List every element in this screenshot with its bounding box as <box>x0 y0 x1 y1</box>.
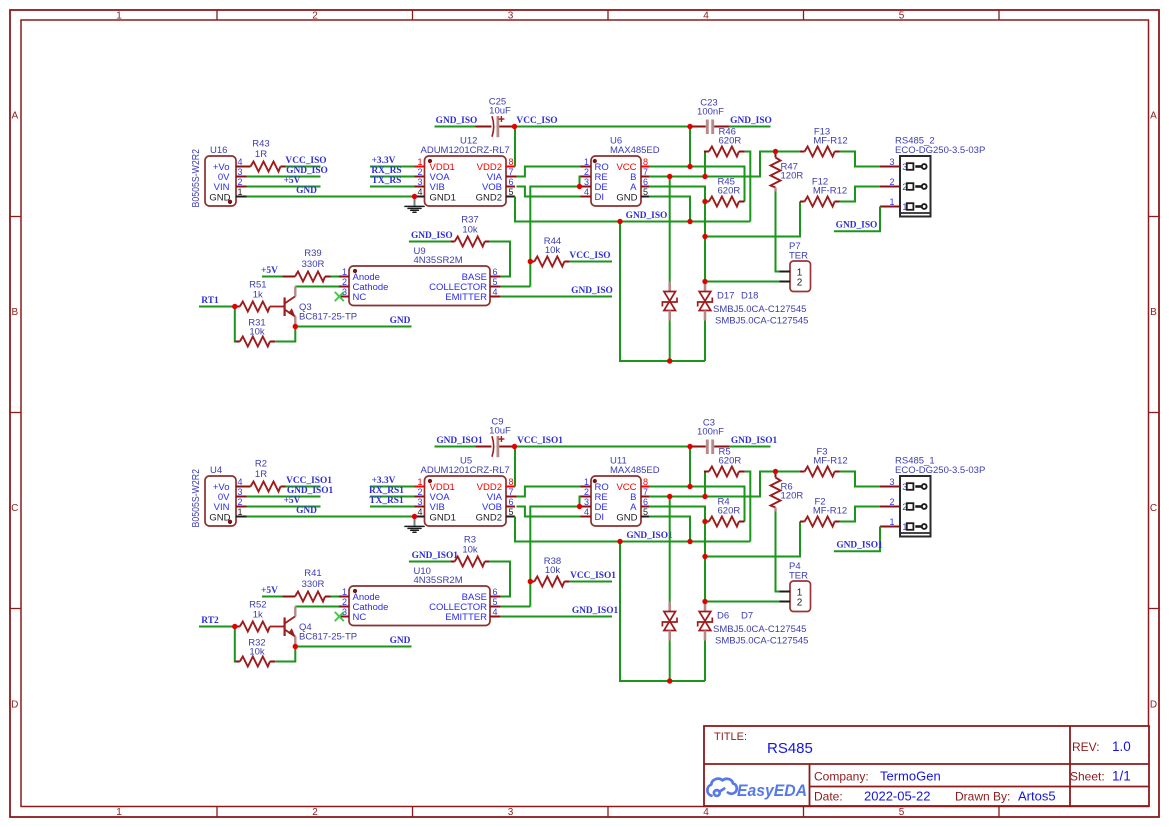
svg-text:3: 3 <box>584 177 589 187</box>
svg-text:MAX485ED: MAX485ED <box>610 465 660 476</box>
svg-text:5: 5 <box>493 597 498 607</box>
digital isolator U12 ADUM1201CRZ-RL7 <box>425 156 507 206</box>
svg-text:100nF: 100nF <box>697 107 724 118</box>
svg-text:GND: GND <box>390 316 411 326</box>
svg-text:EMITTER: EMITTER <box>445 612 487 623</box>
svg-text:2022-05-22: 2022-05-22 <box>864 789 931 804</box>
DC-DC converter U4 B0505S-W2R2 <box>205 476 236 526</box>
wire R38 to VCC_ISO1 <box>569 581 612 583</box>
svg-text:GND_ISO: GND_ISO <box>836 221 878 231</box>
wire RT1 node down to R31 <box>234 307 237 342</box>
svg-text:B0505S-W2R2: B0505S-W2R2 <box>191 469 202 528</box>
wire RT1 <box>199 306 235 308</box>
svg-text:+5V: +5V <box>261 586 278 596</box>
svg-text:1: 1 <box>417 477 422 487</box>
wire R31 to emitter node <box>275 647 295 662</box>
wire COLLECTOR to column <box>501 606 531 608</box>
svg-text:5: 5 <box>899 807 905 818</box>
svg-text:5: 5 <box>643 187 648 197</box>
svg-text:10uF: 10uF <box>489 426 511 437</box>
U5 left pin stubs <box>415 486 425 488</box>
svg-text:GND: GND <box>296 186 317 196</box>
svg-text:+3.3V: +3.3V <box>372 156 396 166</box>
svg-text:GND_ISO: GND_ISO <box>411 231 453 241</box>
junction A-F12 row <box>702 234 707 239</box>
digital isolator U5 ADUM1201CRZ-RL7 <box>425 476 507 526</box>
junction B-R46 <box>702 494 707 499</box>
svg-text:NC: NC <box>353 612 367 623</box>
wire RT2 <box>199 626 235 628</box>
svg-text:120R: 120R <box>781 171 804 182</box>
svg-text:D: D <box>11 700 18 711</box>
svg-text:5: 5 <box>509 187 514 197</box>
svg-text:1: 1 <box>342 587 347 597</box>
junction RE-DE <box>577 504 582 509</box>
svg-text:DI: DI <box>595 192 605 203</box>
DC-DC converter U16 B0505S-W2R2 <box>205 156 236 206</box>
svg-text:R41: R41 <box>304 568 321 579</box>
svg-text:GND2: GND2 <box>476 512 502 523</box>
svg-text:GND_ISO1: GND_ISO1 <box>626 531 673 541</box>
svg-text:GND: GND <box>209 512 230 523</box>
wire D6 to bottom rail <box>669 641 671 682</box>
svg-text:GND_ISO1: GND_ISO1 <box>731 436 778 446</box>
wire D7 to bottom rail <box>704 641 706 682</box>
wire GND_ISO1 pin3 <box>247 496 321 498</box>
svg-text:100nF: 100nF <box>697 427 724 438</box>
wire COLLECTOR to column <box>501 286 531 288</box>
wire EMITTER to GND_ISO1 <box>501 616 612 618</box>
U11 left pin stubs <box>581 486 592 488</box>
wire RT1 node down to R31 <box>234 627 237 662</box>
svg-text:5: 5 <box>509 507 514 517</box>
svg-text:1: 1 <box>342 267 347 277</box>
svg-text:2: 2 <box>312 807 318 818</box>
ground symbol <box>414 197 416 207</box>
wire GND2 down to rail <box>515 517 750 542</box>
svg-text:R39: R39 <box>304 248 321 259</box>
svg-text:MF-R12: MF-R12 <box>813 456 847 467</box>
U16 pin 4 stub <box>236 166 247 168</box>
svg-text:VCC_ISO: VCC_ISO <box>516 116 557 126</box>
svg-text:RX_RS1: RX_RS1 <box>369 486 404 496</box>
RS485_2 pin 2 <box>880 186 900 188</box>
svg-text:2: 2 <box>342 597 347 607</box>
svg-text:MAX485ED: MAX485ED <box>610 145 660 156</box>
svg-text:6: 6 <box>643 497 648 507</box>
wire +5V pin2 <box>247 506 321 508</box>
wire VCC to R45 <box>649 487 745 522</box>
svg-text:3: 3 <box>889 157 894 167</box>
svg-text:+5V: +5V <box>284 496 301 506</box>
U5 right pin stubs <box>506 486 515 488</box>
svg-text:Sheet:: Sheet: <box>1070 770 1105 784</box>
svg-text:GND_ISO: GND_ISO <box>626 211 668 221</box>
svg-text:C: C <box>11 503 18 514</box>
wire R3 to BASE <box>489 562 510 597</box>
U9 right pin stubs <box>490 276 501 278</box>
svg-text:REV:: REV: <box>1072 740 1100 754</box>
svg-text:4: 4 <box>417 187 422 197</box>
svg-text:1: 1 <box>584 477 589 487</box>
U10 right pin stubs <box>490 596 501 598</box>
U4 pin 4 stub <box>236 486 247 488</box>
svg-text:TX_RS: TX_RS <box>372 176 402 186</box>
wire VDD2 to rail vertical <box>514 447 516 487</box>
TVS diode D18 SMBJ5.0CA <box>704 282 707 292</box>
svg-text:D18: D18 <box>741 290 758 301</box>
svg-text:VCC_ISO1: VCC_ISO1 <box>286 476 332 486</box>
RS485_1 pin 2 <box>880 506 900 508</box>
svg-text:TX_RS1: TX_RS1 <box>369 496 404 506</box>
svg-text:GND: GND <box>390 636 411 646</box>
svg-text:10k: 10k <box>545 565 561 576</box>
wire B net <box>649 472 800 497</box>
svg-text:R2: R2 <box>255 459 267 470</box>
svg-text:D17: D17 <box>717 290 734 301</box>
svg-text:3: 3 <box>508 10 514 21</box>
svg-text:4: 4 <box>703 10 709 21</box>
wire VCC to R45 <box>649 167 745 202</box>
svg-text:GND: GND <box>616 512 637 523</box>
TVS diode D6 SMBJ5.0CA <box>668 602 671 612</box>
junction at ground symbol <box>412 194 417 199</box>
wire +3.3V <box>370 486 415 488</box>
svg-text:4: 4 <box>584 507 589 517</box>
junction rail-690 <box>687 539 692 544</box>
svg-text:1: 1 <box>889 197 894 207</box>
svg-text:3: 3 <box>238 487 243 497</box>
wire R47 to P7 pin1 <box>776 192 780 272</box>
U16 pin 1 stub <box>236 196 247 198</box>
svg-text:2: 2 <box>797 598 803 609</box>
svg-text:2: 2 <box>312 10 318 21</box>
wire F2 to connector pin2 <box>840 507 881 522</box>
junction A-P7pin2-D18 <box>702 599 707 604</box>
svg-text:6: 6 <box>509 177 514 187</box>
wire VDD2 to rail vertical <box>514 127 516 167</box>
svg-text:7: 7 <box>509 167 514 177</box>
svg-text:Company:: Company: <box>814 770 869 784</box>
wire VIA to RO <box>517 487 581 497</box>
svg-text:SMBJ5.0CA-C127545: SMBJ5.0CA-C127545 <box>715 635 808 646</box>
svg-text:GND2: GND2 <box>476 192 502 203</box>
svg-text:ECO-DG250-3.5-03P: ECO-DG250-3.5-03P <box>895 465 985 476</box>
svg-text:4: 4 <box>493 287 498 297</box>
svg-text:GND_ISO1: GND_ISO1 <box>572 606 619 616</box>
title block outline <box>704 726 1149 806</box>
wire emitter to GND <box>295 326 411 328</box>
U10 left pin stubs <box>339 596 349 598</box>
svg-text:1: 1 <box>116 807 122 818</box>
svg-text:5: 5 <box>899 10 905 21</box>
junction at ground symbol <box>412 514 417 519</box>
wire VCC_ISO drop to pin8 <box>689 447 691 487</box>
junction bottom rail <box>667 678 672 683</box>
svg-text:10k: 10k <box>462 545 478 556</box>
svg-text:8: 8 <box>643 157 648 167</box>
wire R31 to emitter node <box>275 327 295 342</box>
wire TX_RS <box>370 186 415 188</box>
wire R39 to Anode <box>331 596 340 598</box>
svg-text:1R: 1R <box>255 469 267 480</box>
svg-text:330R: 330R <box>302 579 325 590</box>
bottom gnd loop wire <box>620 222 705 362</box>
svg-text:U4: U4 <box>210 465 222 476</box>
svg-text:1.0: 1.0 <box>1112 739 1131 754</box>
junction VCC column <box>687 484 692 489</box>
svg-text:5: 5 <box>643 507 648 517</box>
svg-text:3: 3 <box>417 177 422 187</box>
svg-text:7: 7 <box>643 487 648 497</box>
svg-text:D7: D7 <box>741 610 753 621</box>
svg-text:1R: 1R <box>255 149 267 160</box>
wire VOB to DI <box>517 507 581 517</box>
junction RT1 node <box>232 304 237 309</box>
svg-text:B: B <box>1150 307 1157 318</box>
svg-text:SMBJ5.0CA-C127545: SMBJ5.0CA-C127545 <box>715 315 808 326</box>
svg-text:GND: GND <box>209 192 230 203</box>
svg-text:1/1: 1/1 <box>1112 769 1131 784</box>
junction emitter <box>293 644 298 649</box>
row ticks left <box>10 216 21 218</box>
wire A to F12 <box>705 202 800 237</box>
svg-text:ADUM1201CRZ-RL7: ADUM1201CRZ-RL7 <box>421 465 510 476</box>
svg-text:MF-R12: MF-R12 <box>813 506 847 517</box>
svg-text:RX_RS: RX_RS <box>371 166 401 176</box>
svg-text:3: 3 <box>238 167 243 177</box>
wire RX_RS <box>370 176 415 178</box>
wire D17 to bottom rail <box>669 321 671 362</box>
junction bottom rail <box>667 358 672 363</box>
U9 left pin stubs <box>339 276 349 278</box>
wire D18 to bottom rail <box>704 321 706 362</box>
wire F12 to connector pin2 <box>840 187 881 202</box>
svg-text:GND_ISO: GND_ISO <box>286 166 328 176</box>
svg-text:D: D <box>1150 700 1157 711</box>
wire R37 to BASE <box>489 242 510 277</box>
wire GND long <box>247 516 415 518</box>
wire GND_ISO pin3 <box>247 176 321 178</box>
svg-text:VCC_ISO: VCC_ISO <box>285 156 326 166</box>
junction B-R46 <box>702 174 707 179</box>
svg-text:1: 1 <box>238 187 243 197</box>
wire GND_ISO to connector pin1 <box>834 207 880 232</box>
wire GND pin5 to rail <box>649 197 690 222</box>
wire GND_ISO1 top right <box>729 446 770 448</box>
svg-text:A: A <box>1150 111 1157 122</box>
wire GND2 down to rail <box>515 197 750 222</box>
svg-text:2: 2 <box>342 277 347 287</box>
svg-text:GND_ISO: GND_ISO <box>436 116 478 126</box>
svg-text:ADUM1201CRZ-RL7: ADUM1201CRZ-RL7 <box>421 145 510 156</box>
junction VCC_ISO rail <box>512 444 517 449</box>
svg-text:2: 2 <box>238 497 243 507</box>
wire A to F2 <box>705 522 800 557</box>
wire R39 to Anode <box>331 276 340 278</box>
wire collector to Cathode <box>295 286 339 288</box>
wire VCC_ISO from R43 <box>286 166 321 168</box>
svg-text:3: 3 <box>342 607 347 617</box>
svg-text:A: A <box>11 111 18 122</box>
svg-text:GND: GND <box>616 192 637 203</box>
svg-text:4N35SR2M: 4N35SR2M <box>414 575 463 586</box>
wire EMITTER to GND_ISO <box>501 296 612 298</box>
svg-text:VCC_ISO1: VCC_ISO1 <box>517 436 563 446</box>
junction B-D17 <box>667 174 672 179</box>
svg-text:4: 4 <box>703 807 709 818</box>
U6 right pin stubs <box>641 166 649 168</box>
wire +3.3V <box>370 166 415 168</box>
RS485_2 pin 3 <box>880 166 900 168</box>
optocoupler U10 4N35SR2M <box>349 586 490 626</box>
junction A-P7pin2-D18 <box>702 279 707 284</box>
transceiver U6 MAX485ED <box>591 156 641 206</box>
junction at C23 <box>687 124 692 129</box>
svg-text:1: 1 <box>116 10 122 21</box>
ground symbol <box>414 517 416 527</box>
svg-text:VCC_ISO1: VCC_ISO1 <box>570 571 616 581</box>
svg-text:GND_ISO: GND_ISO <box>730 116 772 126</box>
wire DE to collector column <box>530 187 579 287</box>
U12 right pin stubs <box>506 166 515 168</box>
junction A-R45 <box>702 199 707 204</box>
svg-text:GND_ISO: GND_ISO <box>571 286 613 296</box>
svg-text:R43: R43 <box>252 139 269 150</box>
wire GND pin5 to rail <box>649 517 690 542</box>
svg-text:BC817-25-TP: BC817-25-TP <box>299 312 357 323</box>
wire VIA to RO <box>517 167 581 177</box>
column ticks top <box>216 10 218 20</box>
U6 left pin stubs <box>581 166 592 168</box>
wire GND_ISO to R37 <box>409 241 451 243</box>
svg-text:3: 3 <box>417 497 422 507</box>
junction rail-620 <box>617 219 622 224</box>
U4 pin 1 stub <box>236 516 247 518</box>
svg-text:MF-R12: MF-R12 <box>813 186 847 197</box>
svg-text:U16: U16 <box>210 145 227 156</box>
wire collector to Cathode <box>295 606 339 608</box>
svg-text:4: 4 <box>238 157 243 167</box>
svg-text:330R: 330R <box>302 259 325 270</box>
svg-text:8: 8 <box>509 157 514 167</box>
svg-text:TITLE:: TITLE: <box>714 731 747 743</box>
svg-text:GND1: GND1 <box>430 192 456 203</box>
wire R46 to gnd rail <box>745 152 751 222</box>
svg-text:GND_ISO1: GND_ISO1 <box>412 551 459 561</box>
wire TX_RS1 <box>370 506 415 508</box>
svg-text:+3.3V: +3.3V <box>372 476 396 486</box>
wire +5V to R39 <box>262 276 283 278</box>
junction B-R47 <box>773 149 778 154</box>
svg-text:1: 1 <box>417 157 422 167</box>
bottom gnd loop wire <box>620 542 705 682</box>
svg-text:NC: NC <box>353 292 367 303</box>
svg-text:GND_ISO1: GND_ISO1 <box>287 486 334 496</box>
svg-text:120R: 120R <box>781 491 804 502</box>
junction B-D17 <box>667 494 672 499</box>
wire GND_ISO top right <box>729 126 770 128</box>
wire A net down <box>649 187 705 282</box>
wire P7 pin2 to A column <box>705 281 780 283</box>
svg-text:SMBJ5.0CA-C127545: SMBJ5.0CA-C127545 <box>713 624 806 635</box>
svg-text:2: 2 <box>584 167 589 177</box>
svg-text:6: 6 <box>493 267 498 277</box>
svg-text:TER: TER <box>789 251 808 262</box>
svg-text:VCC_ISO: VCC_ISO <box>569 251 610 261</box>
svg-text:ECO-DG250-3.5-03P: ECO-DG250-3.5-03P <box>895 145 985 156</box>
svg-text:RT2: RT2 <box>201 616 219 626</box>
U16 pin 3 stub <box>236 176 247 178</box>
junction emitter <box>293 324 298 329</box>
wire DE to collector column <box>530 507 579 607</box>
EasyEDA logo <box>707 779 736 796</box>
svg-text:+5V: +5V <box>261 266 278 276</box>
svg-text:BC817-25-TP: BC817-25-TP <box>299 632 357 643</box>
wire VCC_ISO1 from R2 <box>286 486 321 488</box>
wire RX_RS1 <box>370 496 415 498</box>
wire +5V to R39 <box>262 596 283 598</box>
svg-text:4: 4 <box>238 477 243 487</box>
svg-text:EMITTER: EMITTER <box>445 292 487 303</box>
svg-text:10uF: 10uF <box>489 106 511 117</box>
svg-text:Drawn By:: Drawn By: <box>955 790 1010 804</box>
svg-text:2: 2 <box>889 177 894 187</box>
svg-text:GND_ISO1: GND_ISO1 <box>436 436 483 446</box>
svg-text:Artos5: Artos5 <box>1018 789 1056 804</box>
svg-text:6: 6 <box>509 497 514 507</box>
svg-text:4: 4 <box>493 607 498 617</box>
svg-text:+5V: +5V <box>284 176 301 186</box>
svg-text:620R: 620R <box>718 186 741 197</box>
junction B-R47 <box>773 469 778 474</box>
wire VCC_ISO rail <box>515 126 691 128</box>
wire VOB to DI <box>517 187 581 197</box>
svg-text:2: 2 <box>797 278 803 289</box>
svg-text:RS485: RS485 <box>767 740 813 757</box>
optocoupler U9 4N35SR2M <box>349 266 490 306</box>
svg-text:RT1: RT1 <box>201 296 219 306</box>
svg-text:5: 5 <box>493 277 498 287</box>
U9 no-connect cross <box>335 292 344 301</box>
svg-text:1k: 1k <box>253 290 263 301</box>
svg-text:6: 6 <box>643 177 648 187</box>
TVS diode D7 SMBJ5.0CA <box>704 602 707 612</box>
svg-text:2: 2 <box>238 177 243 187</box>
svg-text:B: B <box>11 307 18 318</box>
wire R44 to VCC_ISO <box>569 261 612 263</box>
row ticks right <box>1149 216 1160 218</box>
svg-text:TermoGen: TermoGen <box>880 769 941 784</box>
RS485_1 pin 3 <box>880 486 900 488</box>
svg-text:1: 1 <box>238 507 243 517</box>
svg-text:8: 8 <box>643 477 648 487</box>
junction A-R45 <box>702 519 707 524</box>
wire B column to D17 <box>669 177 671 282</box>
svg-text:EasyEDA: EasyEDA <box>737 781 807 800</box>
svg-text:2: 2 <box>417 487 422 497</box>
wire RE-DE link <box>580 177 581 187</box>
U4 pin 3 stub <box>236 496 247 498</box>
svg-text:1: 1 <box>889 517 894 527</box>
U11 right pin stubs <box>641 486 649 488</box>
junction at C23 <box>687 444 692 449</box>
wire VCC_ISO drop to pin8 <box>689 127 691 167</box>
svg-text:10k: 10k <box>545 245 561 256</box>
RS485_1 pin 1 <box>880 526 900 528</box>
column ticks bottom <box>216 807 218 818</box>
junction A-F12 row <box>702 554 707 559</box>
